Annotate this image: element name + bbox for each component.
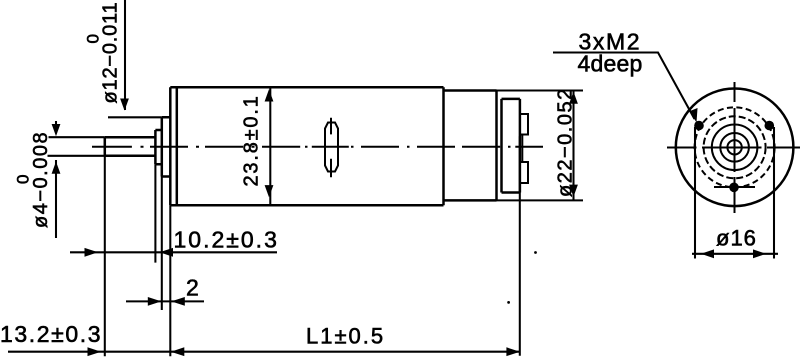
motor can outline [444, 91, 497, 201]
dim line ø22 [572, 91, 574, 201]
arrow 10.2 left [85, 248, 99, 257]
M2 hole bottom [729, 183, 739, 193]
svg-text:0: 0 [14, 174, 33, 184]
M2 hole upper-right [765, 121, 775, 131]
arrow 10.2 right [160, 248, 174, 257]
ext cap right / L1 [519, 136, 521, 355]
boss top extension [108, 116, 162, 118]
boss circle dashed [704, 116, 766, 178]
shaft ø4 [105, 137, 156, 156]
bottom dim line 13.2 / L1 [8, 351, 520, 353]
ext hub face [154, 164, 156, 262]
arrow ø4 bottom [52, 162, 61, 174]
ext body face [169, 205, 171, 356]
ø16 ext lines [695, 127, 774, 259]
bottom hole center mark [714, 186, 755, 188]
svg-text:ø22−0.052: ø22−0.052 [555, 87, 577, 197]
svg-text:ø16: ø16 [716, 226, 757, 251]
svg-text:L1±0.5: L1±0.5 [306, 324, 385, 349]
arrow ø22 bottom [569, 185, 578, 197]
arrow ø16 right [753, 249, 766, 258]
terminal tab upper [520, 114, 528, 135]
front boss ø12 [162, 117, 171, 176]
arrow 13.2 left [88, 347, 102, 356]
svg-text:2: 2 [186, 275, 200, 301]
M2 hole upper-left [694, 121, 704, 131]
dim line 23.8 [269, 87, 271, 205]
circle r7 [727, 140, 741, 154]
main horizontal centerline [92, 146, 543, 148]
arrow ø4 top [52, 124, 61, 136]
svg-text:10.2±0.3: 10.2±0.3 [174, 227, 279, 253]
slot vertical centerline [330, 118, 332, 177]
svg-text:ø12−0.011: ø12−0.011 [100, 2, 122, 104]
arrow ø22 top [569, 92, 578, 104]
leader 3xM2 [553, 53, 695, 120]
arrow ø16 left [701, 249, 714, 258]
front hub [155, 130, 161, 164]
ext shaft tip [104, 137, 106, 356]
stray dot [507, 301, 510, 304]
svg-text:4deep: 4deep [578, 51, 643, 77]
svg-text:0: 0 [84, 34, 103, 44]
slot capsule on body [325, 123, 338, 172]
bolt circle dashed [695, 107, 775, 187]
gearbox body outline [170, 87, 443, 205]
dim ø22 extension lines [497, 91, 584, 201]
svg-text:13.2±0.3: 13.2±0.3 [0, 321, 102, 347]
body inner wall [176, 87, 179, 205]
stray dot 2 [534, 251, 537, 254]
ext boss face [161, 177, 163, 311]
svg-text:23.8±0.1: 23.8±0.1 [241, 94, 263, 186]
arrow leader M2 [688, 107, 699, 123]
svg-text:ø4−0.008: ø4−0.008 [30, 131, 52, 228]
dim line ø4 [55, 121, 57, 238]
end view outer circle [676, 89, 794, 207]
terminal tab lower [520, 162, 528, 183]
dim line ø12 [124, 0, 126, 110]
arrow 2 left [148, 297, 162, 306]
arrow 23.8 bottom [265, 185, 274, 197]
arrow 23.8 top [265, 89, 274, 101]
arrow 2 right [171, 297, 185, 306]
end view centerline horizontal [667, 147, 800, 149]
arrow ø12 [120, 99, 129, 111]
end cap [502, 99, 520, 193]
dim line 2 [126, 300, 204, 302]
arrow 13.2/L1 mid [171, 347, 185, 356]
connector mid line [521, 135, 523, 163]
circle r23 [712, 125, 758, 171]
shaft edge extensions for ø4 dim [48, 137, 105, 156]
ø16 dim line [692, 253, 778, 255]
end view centerline vertical [734, 82, 736, 213]
dim line 10.2 [70, 251, 277, 253]
circle r14 [720, 133, 749, 162]
arrow L1 right [506, 347, 520, 356]
